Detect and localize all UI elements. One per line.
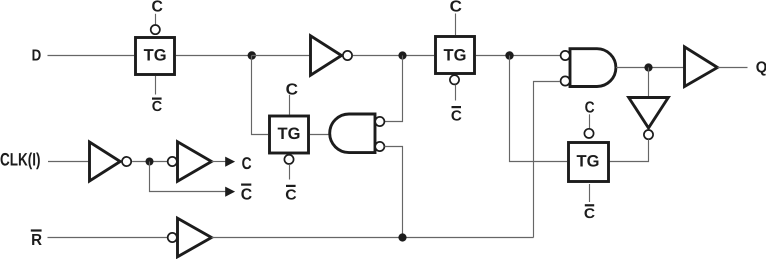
wire C to TG1 bubble xyxy=(155,14,157,25)
wire TG4 bottom stub xyxy=(589,184,591,202)
bubble TG3 bottom xyxy=(450,75,459,84)
wire clock junction to C-bar arrow xyxy=(150,162,227,192)
bubble U3 top input xyxy=(375,117,384,126)
wire TG3 bubble to C-bar xyxy=(455,85,457,101)
label C-bar clock output xyxy=(241,184,251,186)
wire C stub to TG3 xyxy=(455,14,457,36)
wire junction down to inverter U6 xyxy=(648,68,650,98)
bubble U4 top input xyxy=(561,51,570,60)
buffer U8 xyxy=(178,142,212,181)
wire D input xyxy=(48,55,135,57)
wire U8 to C arrow xyxy=(212,161,227,163)
wire U2 to TG3 xyxy=(353,55,434,57)
wire feedback vertical to NAND top bubble xyxy=(384,56,402,122)
svg-text:C: C xyxy=(152,99,163,115)
wire C stub to TG4 bubble xyxy=(589,114,591,128)
label C-bar below TG1 xyxy=(152,97,162,99)
svg-text:C: C xyxy=(584,205,595,221)
bubble on TG1 C input xyxy=(151,25,160,34)
svg-text:TG: TG xyxy=(278,125,301,143)
svg-text:C: C xyxy=(242,154,252,173)
wire TG1 output xyxy=(176,55,252,57)
svg-text:TG: TG xyxy=(144,47,167,65)
svg-text:C: C xyxy=(241,187,253,204)
wire junction down to TG4 input xyxy=(510,56,568,162)
svg-text:C: C xyxy=(451,109,463,125)
wire U4 output xyxy=(616,67,685,69)
bubble U8 input xyxy=(168,157,177,166)
bubble U3 bottom input xyxy=(375,142,384,151)
svg-text:C: C xyxy=(450,0,463,16)
svg-text:R: R xyxy=(31,232,42,249)
wire U6 to TG4 xyxy=(609,139,649,161)
bubble TG4 top xyxy=(584,129,593,138)
wire junction down to TG2 xyxy=(252,56,269,135)
svg-text:TG: TG xyxy=(577,153,600,171)
transmission gate TG4 xyxy=(569,143,609,182)
wire buffer to Q xyxy=(718,67,748,69)
inverter U9 xyxy=(178,218,212,257)
svg-text:CLK(I): CLK(I) xyxy=(0,149,41,169)
junction node feedback top xyxy=(398,51,406,59)
svg-text:TG: TG xyxy=(444,46,467,64)
wire U3 bottom bubble down to R rail xyxy=(384,147,402,238)
bubble U7 output xyxy=(122,157,131,166)
NAND gate (left-pointing AND body) U3 xyxy=(330,114,375,153)
label C-bar below TG3 xyxy=(452,106,462,108)
wire TG3 output to AND gate xyxy=(476,55,561,57)
bubble U4 bottom input xyxy=(561,76,570,85)
inverter U6 (pointing down) xyxy=(629,98,669,129)
svg-text:C: C xyxy=(285,187,297,203)
bubble TG2 bottom xyxy=(284,155,293,164)
bubble U6 output xyxy=(644,130,653,139)
inverter U7 xyxy=(90,142,121,181)
wire R rail up to AND bottom input xyxy=(534,82,561,238)
wire CLK to inverter U7 xyxy=(48,161,90,163)
wire U7 to buffer U8 xyxy=(132,161,167,163)
bubble U9 input xyxy=(168,233,177,242)
wire R rail xyxy=(212,237,534,239)
AND gate U4 xyxy=(570,49,616,87)
junction node after TG1 xyxy=(248,51,256,59)
bubble U2 output xyxy=(343,51,352,60)
svg-text:C: C xyxy=(585,99,595,116)
inverter U2 xyxy=(311,36,342,75)
wire C stub to TG2 xyxy=(289,95,291,115)
wire TG2 to NAND gate xyxy=(310,134,334,136)
junction node clock xyxy=(146,158,154,166)
transmission gate TG2 xyxy=(270,116,309,153)
wire junction to inverter U2 xyxy=(252,55,311,57)
arrowhead C-bar output xyxy=(225,187,235,197)
svg-text:C: C xyxy=(286,81,299,98)
wire R to inverter U9 xyxy=(48,237,168,239)
junction node after TG3 xyxy=(505,51,513,59)
transmission gate TG1 xyxy=(136,38,175,75)
svg-text:C: C xyxy=(152,0,164,16)
wire TG1 bottom stub xyxy=(155,76,157,95)
buffer U5 to Q xyxy=(685,47,718,87)
svg-text:Q: Q xyxy=(756,59,766,76)
svg-text:D: D xyxy=(32,47,42,64)
label C-bar below TG4 xyxy=(585,204,594,206)
label C-bar below TG2 xyxy=(286,185,296,187)
junction node at Q buffer xyxy=(644,63,652,71)
node R-bar label xyxy=(31,229,42,231)
junction node R rail xyxy=(398,233,406,241)
wire TG2 bubble to C-bar xyxy=(289,164,291,179)
arrowhead C output xyxy=(225,157,235,167)
transmission gate TG3 xyxy=(436,37,475,74)
